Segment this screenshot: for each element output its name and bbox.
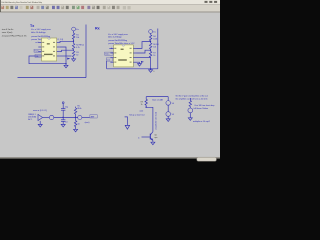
wire down to bottom xyxy=(150,57,152,68)
wire pin4 left and down xyxy=(29,56,66,64)
wire pin4 to ground xyxy=(137,62,140,63)
wire to pin 2 xyxy=(60,50,74,51)
chip U1 pin stubs right xyxy=(57,43,60,57)
wire xyxy=(73,31,75,33)
svg-text:en2: en2 xyxy=(109,48,112,50)
part number xyxy=(44,54,53,55)
canvas xyxy=(0,13,220,158)
svg-text:1k: 1k xyxy=(141,104,143,106)
junction on bottom wire xyxy=(150,68,151,69)
wire to ground xyxy=(73,57,75,59)
toolbar bottom separator xyxy=(0,11,220,14)
svg-text:v(out2) 50 ohm load: v(out2) 50 ohm load xyxy=(154,112,157,130)
probe antenna wire xyxy=(125,117,128,126)
net flag arrow xyxy=(141,61,144,63)
designator U2 xyxy=(47,43,50,44)
Tx comment text lines xyxy=(31,29,64,41)
svg-text:in: in xyxy=(138,138,139,140)
wire xyxy=(43,117,49,119)
wire loop right vertical xyxy=(157,29,159,69)
capacitor C2 down xyxy=(62,118,64,120)
svg-text:npn: npn xyxy=(154,137,157,139)
wire xyxy=(150,34,152,35)
svg-text:.save V(out): .save V(out) xyxy=(2,31,13,34)
junction node xyxy=(75,117,76,118)
right column source xyxy=(188,108,193,113)
spice directives (left margin, dark) xyxy=(2,28,27,37)
out net label boxed xyxy=(90,115,97,118)
bottom window edge xyxy=(0,157,220,159)
svg-text:10k: 10k xyxy=(153,47,156,49)
ground xyxy=(72,59,76,62)
toolbar xyxy=(0,4,220,12)
wire xyxy=(150,41,152,43)
chip U1 pin stubs left xyxy=(38,43,41,57)
wire pin2 to chain xyxy=(137,50,151,53)
svg-text:10k: 10k xyxy=(76,37,79,39)
ground under Q1 xyxy=(152,141,154,143)
svg-text:Idd = 10.4mA typ: Idd = 10.4mA typ xyxy=(31,31,46,34)
svg-text:Set the V gain and load line a: Set the V gain and load line at the out xyxy=(176,95,209,98)
source V4 xyxy=(166,101,171,106)
svg-text:316k: 316k xyxy=(77,108,81,110)
resistor R2 xyxy=(72,44,74,50)
svg-text:out2: out2 xyxy=(140,110,144,113)
net label Clk (boxed) xyxy=(35,54,41,58)
source V1 text xyxy=(28,114,36,121)
junction xyxy=(146,107,147,108)
svg-text:Gain = 14dB: Gain = 14dB xyxy=(152,99,164,101)
wire bottom horizontal xyxy=(107,68,158,70)
wire xyxy=(150,49,152,51)
chip U1 pin names xyxy=(42,42,55,57)
svg-text:100k: 100k xyxy=(153,38,157,40)
svg-text:Out: Out xyxy=(107,59,111,62)
resistor R3 xyxy=(72,51,74,57)
wire loop bottom xyxy=(18,77,87,79)
power node circle xyxy=(72,27,76,31)
toolbar icons xyxy=(1,6,130,10)
probe arrow xyxy=(125,125,129,129)
svg-text:wave = {0 1 0 1}: wave = {0 1 0 1} xyxy=(33,110,47,112)
bottom-right tab xyxy=(197,157,217,161)
wire below resistor xyxy=(145,105,147,107)
series circle on wire xyxy=(78,115,82,119)
wire xyxy=(73,39,75,43)
Rx comment text lines xyxy=(108,34,135,45)
junction xyxy=(73,41,74,42)
svg-text:.tran 0 5m 0u: .tran 0 5m 0u xyxy=(2,28,14,31)
source V5 xyxy=(166,112,171,117)
transistor Q1 xyxy=(149,134,151,140)
svg-text:V4: V4 xyxy=(172,103,174,105)
net label Data (boxed) xyxy=(34,49,41,53)
svg-text:22p: 22p xyxy=(65,107,68,109)
net flag arrow xyxy=(67,58,70,60)
designator xyxy=(121,49,124,50)
junction node xyxy=(63,117,64,118)
resistor R4 xyxy=(149,35,151,41)
svg-text:the amplifier can itself see a: the amplifier can itself see as 50 ohm xyxy=(176,97,208,100)
wire after circle xyxy=(82,117,90,119)
svg-text:File Edit Hierarchy View Simul: File Edit Hierarchy View Simulate Tools … xyxy=(2,1,43,4)
svg-text:Setup a short test: Setup a short test xyxy=(129,113,145,116)
wire xyxy=(54,117,78,119)
left branch down xyxy=(145,97,147,100)
svg-text:50: 50 xyxy=(153,55,155,57)
svg-text:Vcc = 3.0V supply max: Vcc = 3.0V supply max xyxy=(108,34,128,36)
ground under V5 xyxy=(167,116,169,119)
chip U1 body xyxy=(42,38,57,61)
resistor R1 xyxy=(72,33,74,39)
chip U2 notch xyxy=(122,45,125,46)
wire pin4 right stub xyxy=(60,55,72,57)
net label Data boxed xyxy=(105,52,113,56)
resistor Rc xyxy=(145,99,147,105)
window left border xyxy=(0,0,2,12)
svg-text:AC 1: AC 1 xyxy=(28,118,32,121)
svg-text:V5: V5 xyxy=(172,114,174,116)
wire right and down xyxy=(146,107,153,131)
chip U1 notch xyxy=(48,38,51,39)
svg-text:.param f0=433.92Meg: .param f0=433.92Meg xyxy=(108,40,127,42)
svg-text:One 10F too short drop: One 10F too short drop xyxy=(194,104,214,107)
svg-text:Vcc: Vcc xyxy=(76,29,79,31)
comment top right xyxy=(176,95,209,101)
svg-text:.param Tbit=104u slicer = 1.2V: .param Tbit=104u slicer = 1.2V xyxy=(108,42,135,45)
svg-text:full blown 50ohm: full blown 50ohm xyxy=(194,108,209,110)
source V1 triangle xyxy=(38,114,43,120)
svg-text:4.7k: 4.7k xyxy=(76,47,79,49)
wire pin1 to chain xyxy=(137,42,151,49)
capacitor C1 up xyxy=(62,110,64,117)
top wire xyxy=(146,96,168,98)
chip U2 pin stubs left xyxy=(110,48,113,62)
resistor R5 xyxy=(149,43,151,49)
junction xyxy=(150,41,151,42)
window buttons xyxy=(205,1,208,3)
svg-text:.param f0=433.92Meg: .param f0=433.92Meg xyxy=(31,36,50,38)
junction xyxy=(150,50,151,51)
wire xyxy=(73,50,75,52)
resistor down xyxy=(75,118,77,121)
series element L1 circle xyxy=(49,115,53,119)
svg-text:50: 50 xyxy=(78,123,80,125)
ground under source xyxy=(39,121,41,125)
resistor R6 xyxy=(149,51,151,57)
power node circle xyxy=(149,30,153,34)
svg-text:.measure RFout PP(v) 5 1%: .measure RFout PP(v) 5 1% xyxy=(2,34,27,37)
svg-text:en1: en1 xyxy=(35,42,38,44)
wire left vertical xyxy=(106,61,108,69)
ground xyxy=(138,64,142,67)
resistor up xyxy=(75,114,77,118)
wire to pin 1 xyxy=(60,41,74,42)
part number xyxy=(118,59,127,60)
chip U2 body xyxy=(114,45,134,67)
black bottom strip xyxy=(0,159,220,165)
junction xyxy=(65,63,66,64)
chip U2 pin names xyxy=(114,48,131,63)
chip U2 pin stubs right xyxy=(133,48,136,62)
wire pin3 right then down xyxy=(60,47,66,64)
right column resistor xyxy=(189,98,191,101)
svg-text:Vcc: Vcc xyxy=(153,32,156,34)
svg-text:0: 0 xyxy=(153,71,154,73)
net label Out boxed xyxy=(106,58,112,62)
ground under chip xyxy=(65,64,67,66)
svg-text:Idd = 5.2mA typ: Idd = 5.2mA typ xyxy=(108,36,122,39)
svg-text:50: 50 xyxy=(76,54,78,56)
right column texts xyxy=(193,104,214,123)
svg-text:C4: C4 xyxy=(65,122,67,124)
svg-text:multiplier = 10 sqrt2: multiplier = 10 sqrt2 xyxy=(193,120,210,123)
window chrome: menu bar xyxy=(0,0,220,4)
wire pin3 right xyxy=(137,57,151,59)
wire loop right vertical xyxy=(85,25,87,78)
svg-text:v(ant): v(ant) xyxy=(85,121,90,124)
ground below bottom wire xyxy=(150,69,152,70)
